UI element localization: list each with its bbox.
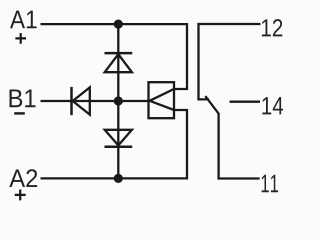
relay coil K1 polarity chevron (150, 89, 174, 110)
wire contact 14 (normally open) (230, 101, 261, 103)
terminal label B1 (10, 90, 36, 108)
diode D1 between B1 bus and A1 (cathode up) (105, 53, 133, 72)
terminal label A2 (9, 169, 37, 187)
diode D3 between B1 bus and A2 (cathode down) (105, 130, 133, 147)
diode D2 in series with B1 (cathode left) (72, 87, 90, 115)
junction dot node B1 (114, 96, 123, 105)
terminal label A1 (10, 11, 37, 29)
junction dot node A1 (114, 20, 123, 29)
wire vertical bus A1-B1-A2 (117, 24, 119, 178)
polarity + of A2 (15, 190, 26, 201)
terminal label 12 (262, 19, 282, 36)
contact lever and wire to terminal 11 (205, 96, 259, 178)
wire B1 to coil left pin (41, 100, 149, 102)
wire contact 12 fixed contact (199, 24, 261, 99)
wire A2 to coil bottom pin (41, 110, 188, 178)
terminal label 11 (262, 175, 279, 193)
polarity + of A1 (15, 33, 26, 44)
relay coil K1 body (149, 82, 175, 118)
polarity - of B1 (14, 112, 25, 114)
wire A1 to coil top pin (41, 24, 188, 89)
junction dot node A2 (114, 174, 123, 183)
terminal label 14 (262, 97, 283, 114)
